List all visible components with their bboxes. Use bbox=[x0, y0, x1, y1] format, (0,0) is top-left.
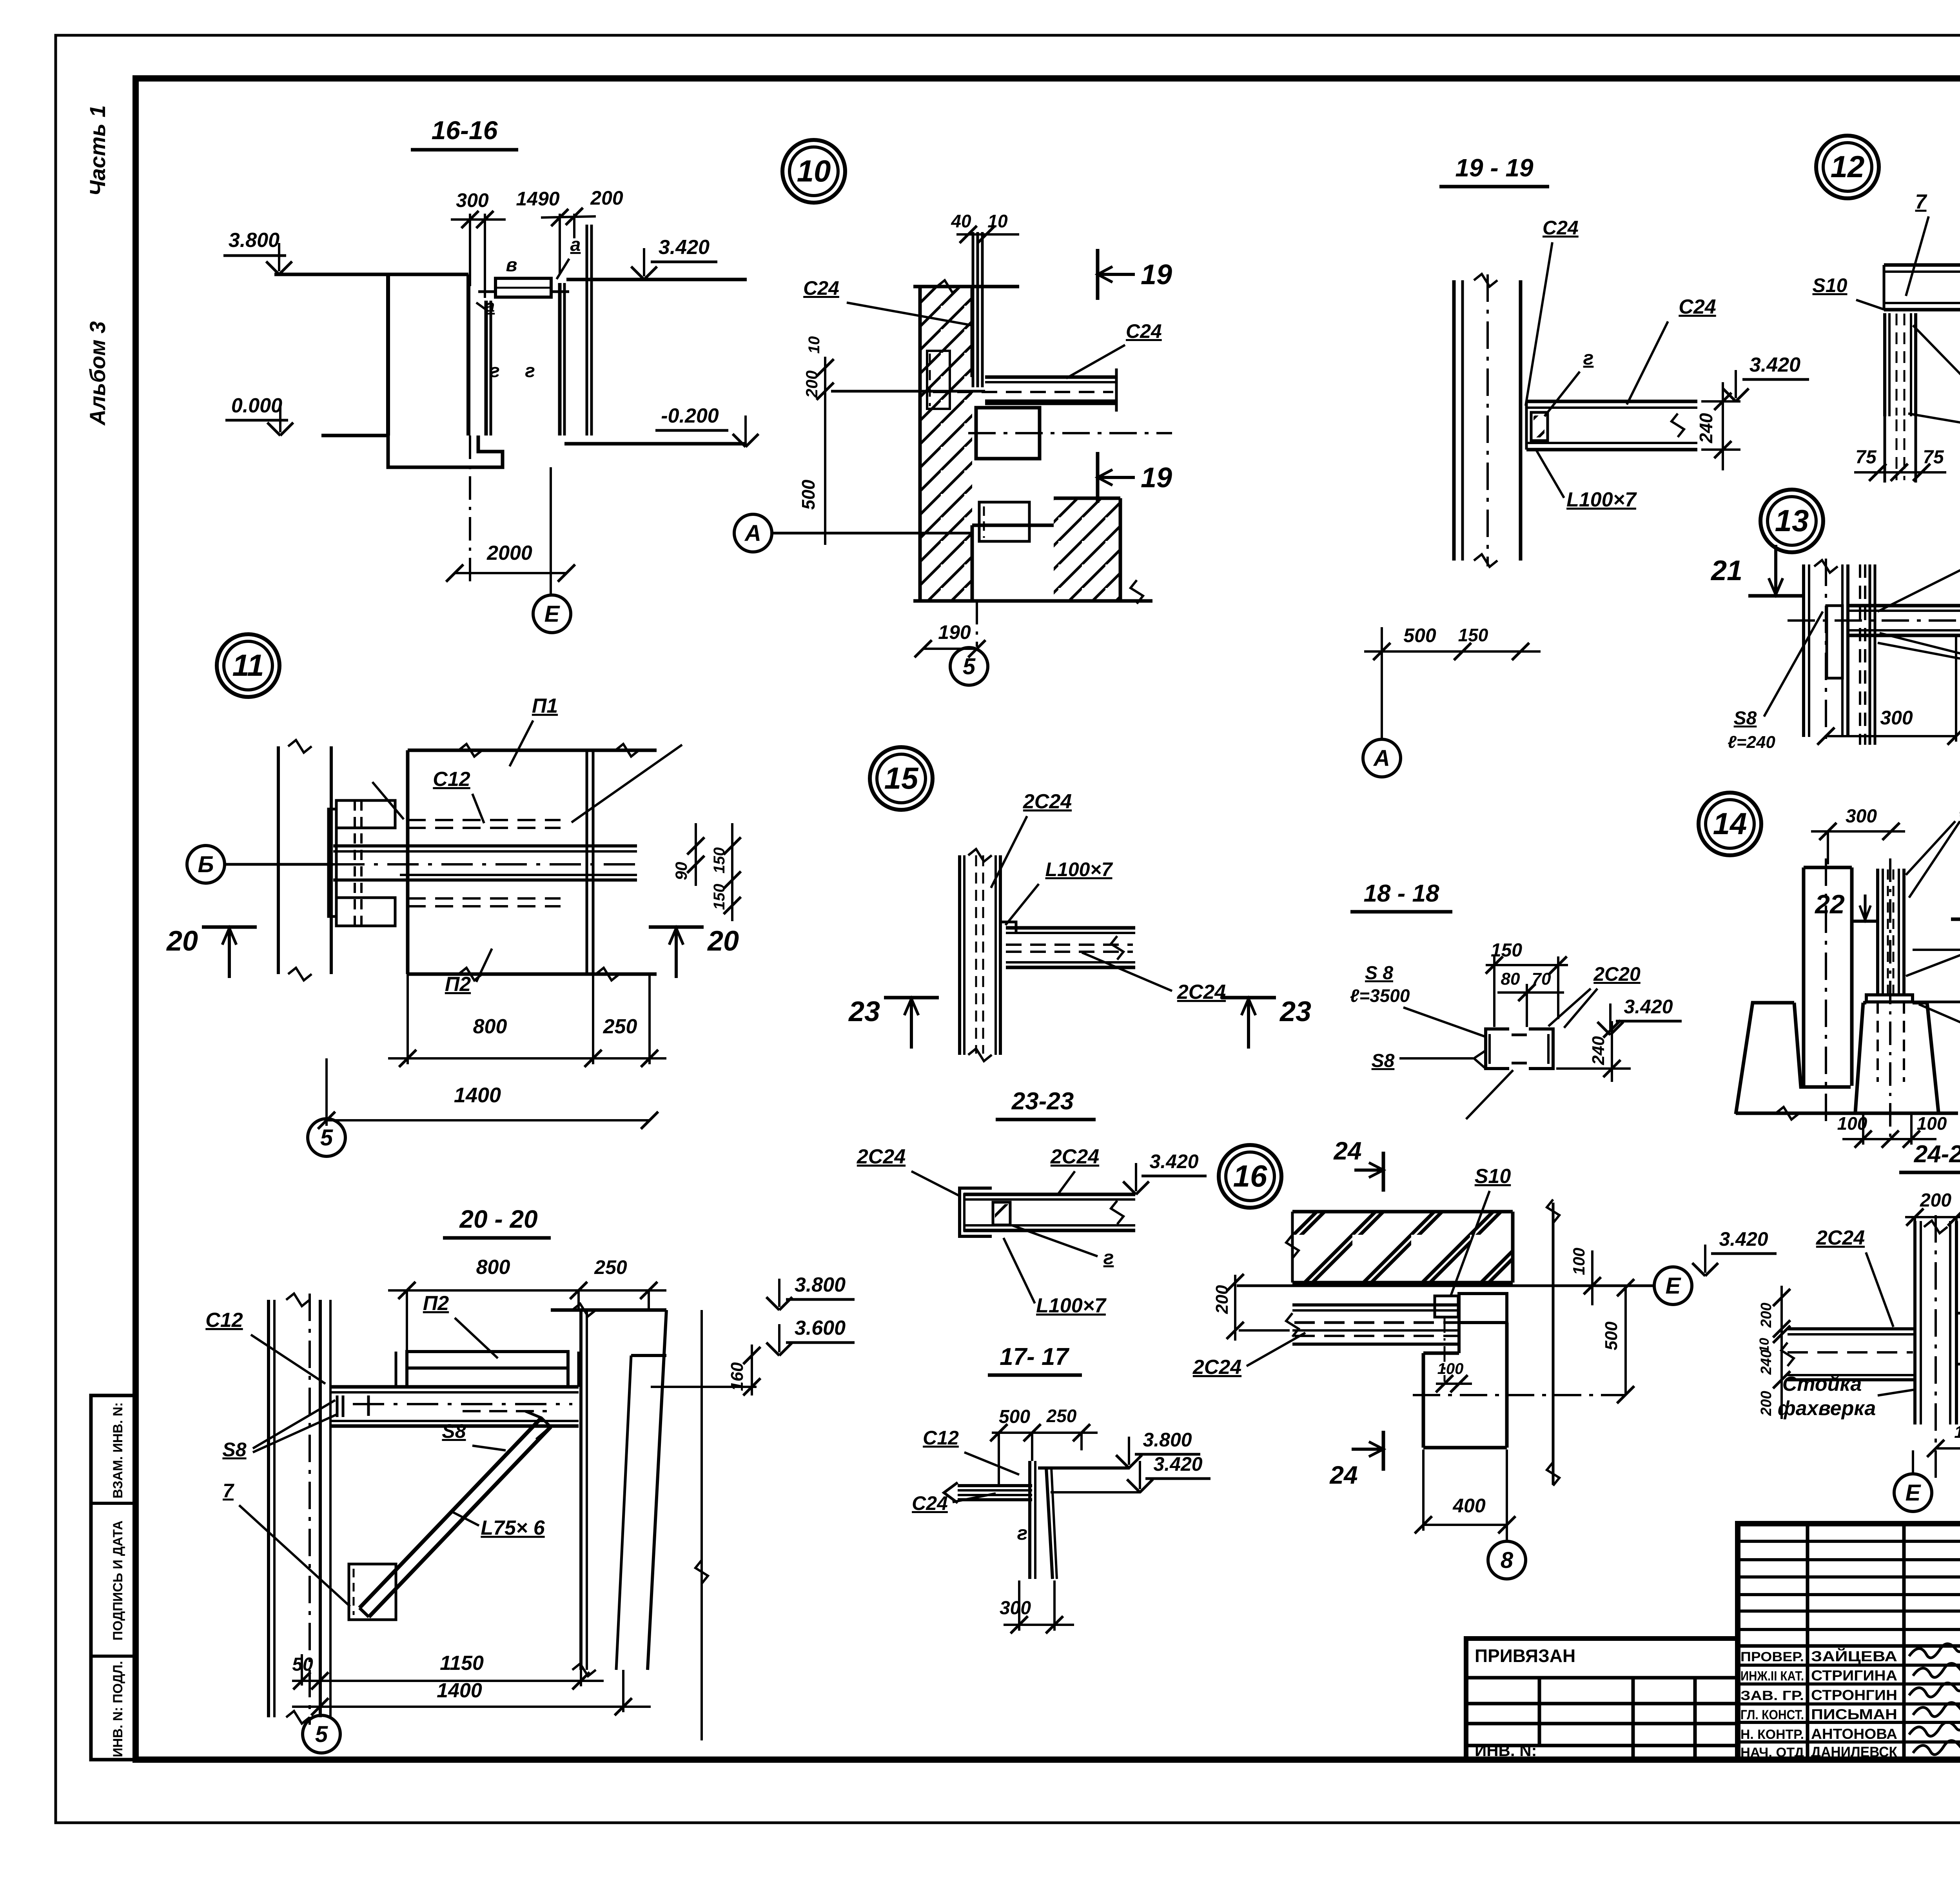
svg-text:ИНВ. N: ПОДЛ.: ИНВ. N: ПОДЛ. bbox=[111, 1661, 125, 1757]
svg-text:24-24: 24-24 bbox=[1914, 1141, 1960, 1168]
svg-text:в: в bbox=[506, 255, 517, 276]
11 main plate piece bbox=[408, 749, 657, 752]
svg-text:1400: 1400 bbox=[437, 1679, 482, 1702]
20-20 right wall bbox=[579, 1310, 583, 1670]
10 dashed hidden column bbox=[927, 351, 950, 409]
svg-text:Е: Е bbox=[1666, 1273, 1682, 1299]
svg-text:2С24: 2С24 bbox=[1023, 790, 1072, 813]
14 foundation trough left bbox=[1736, 1003, 1794, 1114]
svg-text:20: 20 bbox=[166, 925, 198, 957]
svg-text:ℓ=3500: ℓ=3500 bbox=[1350, 985, 1410, 1006]
svg-text:г: г bbox=[1583, 347, 1594, 369]
svg-text:-0.200: -0.200 bbox=[661, 405, 719, 427]
16 dash-dot line lower bbox=[1413, 1394, 1626, 1396]
20-20 small stiffeners bbox=[336, 1395, 339, 1417]
svg-text:А: А bbox=[744, 521, 761, 546]
10 section marks 19 bbox=[1096, 249, 1100, 300]
svg-text:40: 40 bbox=[951, 211, 971, 231]
svg-text:19: 19 bbox=[1141, 259, 1172, 290]
24-24 left dims 200 10 240 200 bbox=[1780, 1286, 1783, 1419]
svg-text:СТРИГИНА: СТРИГИНА bbox=[1811, 1668, 1897, 1684]
20-20 diagonal brace L75x6 bbox=[359, 1418, 541, 1608]
svg-text:250: 250 bbox=[603, 1015, 637, 1038]
svg-text:12: 12 bbox=[1831, 149, 1865, 184]
svg-text:1150: 1150 bbox=[440, 1652, 484, 1675]
svg-text:Б: Б bbox=[198, 852, 214, 877]
10 lower wall hatched part bbox=[1054, 498, 1120, 601]
16 column bbox=[1422, 1353, 1425, 1448]
axis circle Б bbox=[187, 846, 225, 883]
svg-text:300: 300 bbox=[1846, 806, 1877, 827]
svg-text:19: 19 bbox=[1141, 462, 1172, 494]
11 beam center lines bbox=[333, 844, 637, 847]
svg-text:ИНВ. N:: ИНВ. N: bbox=[1475, 1741, 1537, 1760]
svg-text:А: А bbox=[1373, 746, 1390, 771]
24-24 column bbox=[1913, 1221, 1916, 1424]
svg-text:2С24: 2С24 bbox=[857, 1145, 906, 1168]
svg-text:8: 8 bbox=[1501, 1548, 1514, 1573]
svg-text:L100×7: L100×7 bbox=[1036, 1294, 1107, 1317]
svg-text:5: 5 bbox=[963, 654, 976, 679]
svg-text:500: 500 bbox=[798, 479, 818, 510]
svg-text:фахверка: фахверка bbox=[1778, 1397, 1876, 1420]
12 beam top bbox=[1884, 263, 1960, 267]
23-23 beam bbox=[964, 1193, 1135, 1196]
svg-text:200: 200 bbox=[1920, 1190, 1951, 1211]
svg-text:16-16: 16-16 bbox=[432, 116, 498, 145]
node circle 13 bbox=[1760, 490, 1823, 552]
svg-text:18 - 18: 18 - 18 bbox=[1363, 880, 1439, 907]
svg-text:С12: С12 bbox=[205, 1309, 243, 1332]
13 leader to 21 mark bbox=[1878, 563, 1960, 611]
axis circle E below 24-24 bbox=[1912, 1450, 1914, 1475]
svg-text:2000: 2000 bbox=[486, 542, 532, 564]
node circle 15 bbox=[870, 747, 933, 810]
svg-text:240: 240 bbox=[1589, 1036, 1608, 1065]
svg-text:75: 75 bbox=[1923, 447, 1944, 468]
svg-text:S10: S10 bbox=[1813, 274, 1847, 296]
20-20 brace lower plate bbox=[349, 1564, 396, 1620]
svg-text:300: 300 bbox=[1880, 707, 1913, 729]
svg-text:ИНЖ.II КАТ.: ИНЖ.II КАТ. bbox=[1740, 1669, 1804, 1684]
axis circle 5 below 10 bbox=[950, 648, 988, 685]
17-17 beam C24 bbox=[958, 1484, 1032, 1487]
svg-text:19 - 19: 19 - 19 bbox=[1455, 154, 1534, 182]
svg-text:L75× 6: L75× 6 bbox=[481, 1517, 545, 1539]
svg-text:S8: S8 bbox=[1734, 708, 1757, 729]
16-16 wall section bbox=[386, 274, 390, 435]
axis circle 8 bbox=[1506, 1450, 1508, 1542]
svg-text:5: 5 bbox=[320, 1125, 333, 1150]
svg-text:ПОДПИСЬ И ДАТА: ПОДПИСЬ И ДАТА bbox=[111, 1521, 125, 1640]
svg-text:21: 21 bbox=[1710, 555, 1742, 586]
svg-text:250: 250 bbox=[1046, 1406, 1077, 1426]
svg-text:Стойка: Стойка bbox=[1782, 1373, 1862, 1395]
svg-text:Е: Е bbox=[544, 601, 561, 627]
svg-text:П1: П1 bbox=[532, 695, 558, 717]
10 wall bottom line bbox=[913, 599, 1152, 603]
svg-text:S8: S8 bbox=[222, 1439, 246, 1461]
axis circle 5 bottom bbox=[319, 1681, 322, 1715]
svg-text:150: 150 bbox=[1491, 940, 1522, 961]
axis circle 5 below 11 bbox=[308, 1119, 345, 1156]
svg-text:300: 300 bbox=[456, 189, 489, 211]
svg-text:S8: S8 bbox=[1372, 1051, 1395, 1071]
svg-text:3.800: 3.800 bbox=[795, 1274, 846, 1296]
svg-text:С24: С24 bbox=[1126, 320, 1162, 342]
svg-text:ДАНИЛЕВСК: ДАНИЛЕВСК bbox=[1811, 1744, 1897, 1760]
svg-text:22: 22 bbox=[1814, 889, 1845, 919]
privyazan table bbox=[1466, 1639, 1738, 1760]
svg-text:100: 100 bbox=[1437, 1360, 1464, 1377]
svg-text:a: a bbox=[570, 234, 581, 255]
svg-text:24: 24 bbox=[1333, 1137, 1361, 1165]
16-16 top channel piece with label в bbox=[495, 278, 551, 297]
svg-text:Е: Е bbox=[1906, 1480, 1922, 1506]
svg-text:1490: 1490 bbox=[516, 188, 559, 210]
svg-text:3.420: 3.420 bbox=[1624, 996, 1673, 1018]
svg-text:ПРИВЯЗАН: ПРИВЯЗАН bbox=[1475, 1646, 1575, 1666]
svg-text:ВЗАМ. ИНВ. N:: ВЗАМ. ИНВ. N: bbox=[111, 1402, 125, 1499]
svg-text:3.420: 3.420 bbox=[1749, 354, 1800, 376]
15 angle connection bbox=[1000, 922, 1016, 933]
svg-text:240: 240 bbox=[1696, 413, 1716, 443]
svg-text:S8: S8 bbox=[442, 1420, 466, 1442]
svg-text:100: 100 bbox=[1954, 1423, 1960, 1442]
svg-text:S10: S10 bbox=[1475, 1165, 1511, 1188]
20-20 top beam piece bbox=[407, 1352, 568, 1368]
20-20 main beam bbox=[330, 1385, 579, 1389]
24-24 bracket bbox=[1956, 1313, 1960, 1364]
svg-text:г: г bbox=[490, 361, 500, 381]
svg-text:г: г bbox=[525, 361, 535, 381]
svg-text:3.420: 3.420 bbox=[659, 236, 710, 259]
svg-text:НАЧ. ОТД: НАЧ. ОТД bbox=[1740, 1745, 1804, 1760]
10 gusset rect below beam bbox=[976, 408, 1040, 459]
14 channel pair 2C12 bbox=[1876, 869, 1879, 995]
svg-text:С12: С12 bbox=[923, 1427, 959, 1449]
svg-text:ГЛ. КОНСТ.: ГЛ. КОНСТ. bbox=[1740, 1707, 1804, 1722]
svg-text:3.420: 3.420 bbox=[1719, 1228, 1768, 1250]
svg-text:15: 15 bbox=[884, 761, 919, 795]
svg-text:L100×7: L100×7 bbox=[1045, 858, 1113, 880]
svg-text:С24: С24 bbox=[1543, 217, 1579, 239]
node circle 14 bbox=[1699, 793, 1761, 855]
svg-text:190: 190 bbox=[938, 621, 971, 643]
node circle 16 bbox=[1219, 1145, 1281, 1208]
node circle 11 bbox=[217, 634, 279, 697]
11 diagonal leader bbox=[372, 782, 404, 819]
svg-text:АНТОНОВА: АНТОНОВА bbox=[1811, 1726, 1897, 1742]
axis circle A below 19-19 bbox=[1363, 739, 1401, 777]
16 corbel rect bbox=[1459, 1294, 1507, 1323]
11 left wall verticals bbox=[277, 746, 280, 974]
axis circle A left of 10 bbox=[734, 514, 772, 552]
svg-text:240: 240 bbox=[1758, 1350, 1775, 1375]
svg-text:500: 500 bbox=[1403, 624, 1436, 646]
svg-text:П2: П2 bbox=[423, 1292, 449, 1315]
svg-text:ПИСЬМАН: ПИСЬМАН bbox=[1811, 1706, 1897, 1722]
svg-text:г: г bbox=[1103, 1247, 1114, 1268]
svg-text:L100×7: L100×7 bbox=[1566, 488, 1637, 511]
svg-text:100: 100 bbox=[1570, 1248, 1588, 1275]
svg-text:a: a bbox=[485, 296, 495, 316]
svg-text:2С24: 2С24 bbox=[1192, 1356, 1241, 1379]
svg-text:24: 24 bbox=[1329, 1461, 1357, 1489]
node circle 10 bbox=[782, 140, 845, 203]
svg-text:80: 80 bbox=[1501, 969, 1520, 989]
16 wall axis line bbox=[1552, 1203, 1555, 1485]
19-19 end angle piece bbox=[1531, 412, 1548, 441]
16-16 top slab line bbox=[274, 273, 468, 276]
11 dashed lines lower bbox=[408, 897, 561, 900]
11 dashed lines upper bbox=[408, 819, 561, 821]
svg-text:10: 10 bbox=[797, 154, 831, 188]
23-23 left channel bbox=[960, 1188, 992, 1236]
title block main bbox=[1738, 1524, 1960, 1760]
svg-text:Часть 1: Часть 1 bbox=[85, 105, 110, 196]
10 wall hatched bbox=[920, 287, 972, 601]
svg-text:20 - 20: 20 - 20 bbox=[459, 1205, 537, 1233]
18-18 bottom leader bbox=[1466, 1070, 1513, 1119]
16-16 bottom dim 2000 bbox=[469, 435, 471, 588]
svg-text:11: 11 bbox=[232, 648, 264, 682]
svg-text:400: 400 bbox=[1452, 1495, 1486, 1517]
svg-text:20: 20 bbox=[707, 925, 739, 957]
14 ground line bbox=[1736, 1112, 1958, 1115]
svg-text:14: 14 bbox=[1713, 806, 1747, 841]
10 dashed step rect bbox=[979, 502, 1029, 541]
14 column white post bbox=[1802, 867, 1806, 1086]
svg-text:13: 13 bbox=[1775, 503, 1809, 538]
svg-text:3.800: 3.800 bbox=[229, 229, 279, 252]
svg-text:С24: С24 bbox=[803, 277, 839, 299]
10 left extension and dims 200 10 bbox=[831, 390, 985, 393]
svg-text:100: 100 bbox=[1917, 1113, 1947, 1134]
svg-text:С12: С12 bbox=[433, 768, 470, 791]
svg-text:23-23: 23-23 bbox=[1011, 1088, 1074, 1115]
axis circle E below 16-16 bbox=[533, 595, 571, 633]
svg-text:П2: П2 bbox=[445, 973, 471, 996]
13 beam bbox=[1848, 604, 1960, 608]
19-19 beam bbox=[1526, 400, 1697, 403]
svg-text:10: 10 bbox=[806, 336, 823, 354]
15 beam bbox=[1006, 926, 1135, 930]
18-18 channel sections bbox=[1486, 1029, 1509, 1069]
svg-text:500: 500 bbox=[999, 1406, 1030, 1427]
16-16 channel columns bbox=[485, 301, 488, 435]
13 connection plate bbox=[1827, 606, 1842, 678]
svg-text:800: 800 bbox=[476, 1256, 510, 1279]
15 section marks 23 bbox=[884, 996, 939, 1000]
12 column below bbox=[1883, 313, 1886, 416]
16-16 footing step bbox=[388, 435, 503, 467]
13 section mark 21 left bbox=[1748, 594, 1803, 598]
svg-text:250: 250 bbox=[594, 1256, 627, 1278]
svg-text:С24: С24 bbox=[1679, 296, 1716, 318]
svg-text:2С20: 2С20 bbox=[1593, 963, 1641, 985]
svg-text:200: 200 bbox=[1758, 1303, 1775, 1328]
svg-text:2С24: 2С24 bbox=[1177, 981, 1226, 1003]
node circle 12 bbox=[1816, 136, 1879, 198]
svg-text:г: г bbox=[1017, 1522, 1028, 1544]
svg-text:150: 150 bbox=[1458, 625, 1488, 645]
svg-text:75: 75 bbox=[1855, 447, 1877, 468]
13 dashed front column bbox=[1859, 564, 1861, 745]
svg-text:S 8: S 8 bbox=[1365, 963, 1393, 983]
svg-text:Н. КОНТР.: Н. КОНТР. bbox=[1740, 1727, 1804, 1742]
14 section mark 22 left small bbox=[1853, 920, 1878, 923]
svg-text:1400: 1400 bbox=[454, 1083, 501, 1107]
svg-text:200: 200 bbox=[1758, 1391, 1775, 1416]
svg-text:17- 17: 17- 17 bbox=[1000, 1343, 1069, 1370]
16 beam below slab bbox=[1292, 1303, 1459, 1306]
11 section marks 20 bbox=[202, 925, 257, 929]
svg-text:3.420: 3.420 bbox=[1153, 1453, 1202, 1475]
12 leader lines to 2C12 bbox=[1913, 325, 1960, 428]
11 left connection boxes bbox=[336, 800, 395, 828]
left margin stamp boxes bbox=[91, 1395, 136, 1760]
svg-text:3.800: 3.800 bbox=[1143, 1429, 1192, 1451]
16 axis E line and circle bbox=[1237, 1285, 1654, 1287]
20-20 left wall bbox=[267, 1300, 270, 1717]
svg-text:С24: С24 bbox=[912, 1492, 948, 1514]
10 vertical member above wall bbox=[972, 232, 975, 387]
svg-text:ℓ=240: ℓ=240 bbox=[1728, 733, 1775, 752]
23-23 hatched angle box bbox=[993, 1202, 1010, 1225]
svg-text:СТРОНГИН: СТРОНГИН bbox=[1811, 1687, 1897, 1703]
14 connection lines right bbox=[1913, 949, 1960, 951]
24-24 beam from left bbox=[1788, 1327, 1915, 1330]
14 foundation pedestal right bbox=[1863, 1001, 1866, 1005]
14 anchor plate bbox=[1866, 995, 1913, 1002]
svg-text:Альбом 3: Альбом 3 bbox=[85, 321, 110, 426]
svg-text:2С24: 2С24 bbox=[1816, 1227, 1865, 1249]
title block signatures bbox=[1909, 1644, 1960, 1658]
svg-text:ЗАЙЦЕВА: ЗАЙЦЕВА bbox=[1811, 1648, 1897, 1664]
svg-text:500: 500 bbox=[1602, 1321, 1621, 1350]
14 section mark 22 right bbox=[1951, 918, 1960, 921]
svg-text:200: 200 bbox=[590, 187, 623, 209]
svg-text:2С24: 2С24 bbox=[1050, 1145, 1099, 1168]
svg-text:23: 23 bbox=[848, 996, 880, 1027]
svg-text:ПРОВЕР.: ПРОВЕР. bbox=[1740, 1649, 1804, 1664]
16 hatched slab bbox=[1292, 1212, 1513, 1283]
13 wall column bbox=[1802, 564, 1805, 737]
svg-text:7: 7 bbox=[223, 1480, 234, 1502]
svg-text:16: 16 bbox=[1233, 1159, 1267, 1193]
svg-text:3.420: 3.420 bbox=[1149, 1150, 1198, 1172]
svg-text:23: 23 bbox=[1279, 996, 1311, 1027]
svg-text:800: 800 bbox=[473, 1015, 507, 1038]
10 beam to the right bbox=[985, 376, 1116, 379]
svg-text:0.000: 0.000 bbox=[231, 394, 282, 417]
svg-text:5: 5 bbox=[315, 1722, 328, 1747]
19-19 wall bbox=[1452, 280, 1456, 561]
15 wall verticals bbox=[958, 855, 961, 1055]
svg-text:3.600: 3.600 bbox=[795, 1317, 846, 1339]
svg-text:300: 300 bbox=[1000, 1598, 1031, 1619]
16 S10 plate bbox=[1435, 1296, 1458, 1317]
17-17 vertical member bbox=[1028, 1461, 1031, 1579]
20-20 right tall line bbox=[701, 1310, 703, 1740]
svg-text:ЗАВ. ГР.: ЗАВ. ГР. bbox=[1740, 1688, 1804, 1703]
svg-text:7: 7 bbox=[1915, 191, 1927, 213]
